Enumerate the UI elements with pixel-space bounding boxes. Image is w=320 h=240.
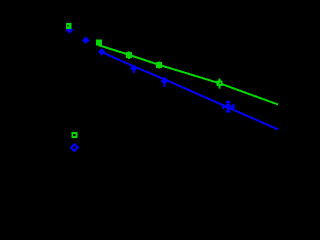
- blue diamond B1: [66, 26, 74, 34]
- blue diamond B5: [161, 77, 169, 85]
- green errorbar G4: [158, 61, 160, 68]
- blue series fit line: [100, 51, 278, 129]
- blue errorbar B6 vertical with caps: [223, 102, 233, 111]
- green square G3: [126, 52, 132, 58]
- green series fit line: [98, 45, 278, 105]
- blue diamond B4: [130, 64, 138, 72]
- blue diamond B2: [82, 37, 90, 45]
- blue diamond B3: [98, 48, 106, 56]
- blue errorbar B5: [164, 78, 166, 87]
- green square G1 centre dot: [67, 25, 68, 26]
- green square G5: [217, 80, 223, 86]
- blue errorbar B4: [133, 65, 135, 73]
- legend open green square: [72, 133, 76, 137]
- legend open blue diamond: [71, 144, 78, 151]
- green errorbar G5: [219, 79, 221, 89]
- green errorbar G3: [128, 52, 130, 59]
- green square G5 centre dot: [220, 83, 221, 84]
- green square G2: [96, 40, 102, 46]
- green square G1: [66, 23, 72, 29]
- green square G4: [156, 62, 162, 68]
- blue diamond B6: [224, 103, 232, 111]
